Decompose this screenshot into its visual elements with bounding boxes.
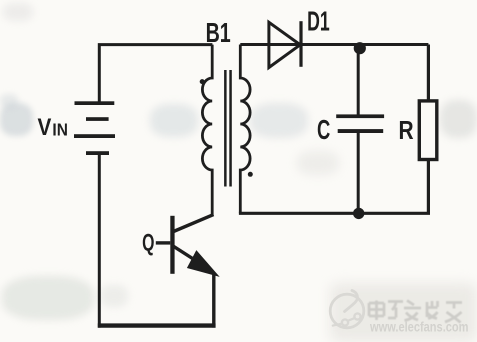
watermark text dianzifashaoyou <box>369 301 462 323</box>
svg-text:D1: D1 <box>307 5 330 36</box>
svg-text:Q: Q <box>142 230 154 256</box>
battery VIN <box>74 101 115 155</box>
wire output top <box>240 43 428 46</box>
svg-text:R: R <box>399 116 414 145</box>
wire output bottom rail <box>239 212 430 215</box>
junction node bottom <box>353 208 364 219</box>
transformer B1 secondary winding <box>240 45 250 214</box>
label VIN <box>38 114 68 141</box>
transformer primary phase dot <box>200 79 205 84</box>
junction node top <box>354 42 366 54</box>
transformer core <box>224 70 232 187</box>
resistor R <box>419 101 437 160</box>
wire battery top to transformer <box>99 45 212 103</box>
wire bottom rail <box>98 323 216 327</box>
svg-text:V: V <box>38 114 52 141</box>
svg-text:www.elecfans.com: www.elecfans.com <box>369 320 468 335</box>
svg-text:B1: B1 <box>206 18 231 49</box>
wire resistor bottom <box>427 161 430 213</box>
transistor Q <box>156 215 218 276</box>
svg-text:C: C <box>317 114 330 146</box>
wire emitter to rail <box>212 274 215 328</box>
diode D1 <box>269 21 301 67</box>
wire capacitor bottom <box>357 133 360 214</box>
svg-text:IN: IN <box>52 121 67 140</box>
watermark logo <box>330 291 364 328</box>
transformer secondary phase dot <box>248 172 253 177</box>
transformer B1 primary winding <box>202 45 212 215</box>
capacitor C <box>336 114 384 133</box>
wire capacitor top <box>357 48 360 115</box>
wire resistor top <box>427 45 430 100</box>
wire battery bottom <box>98 153 101 328</box>
